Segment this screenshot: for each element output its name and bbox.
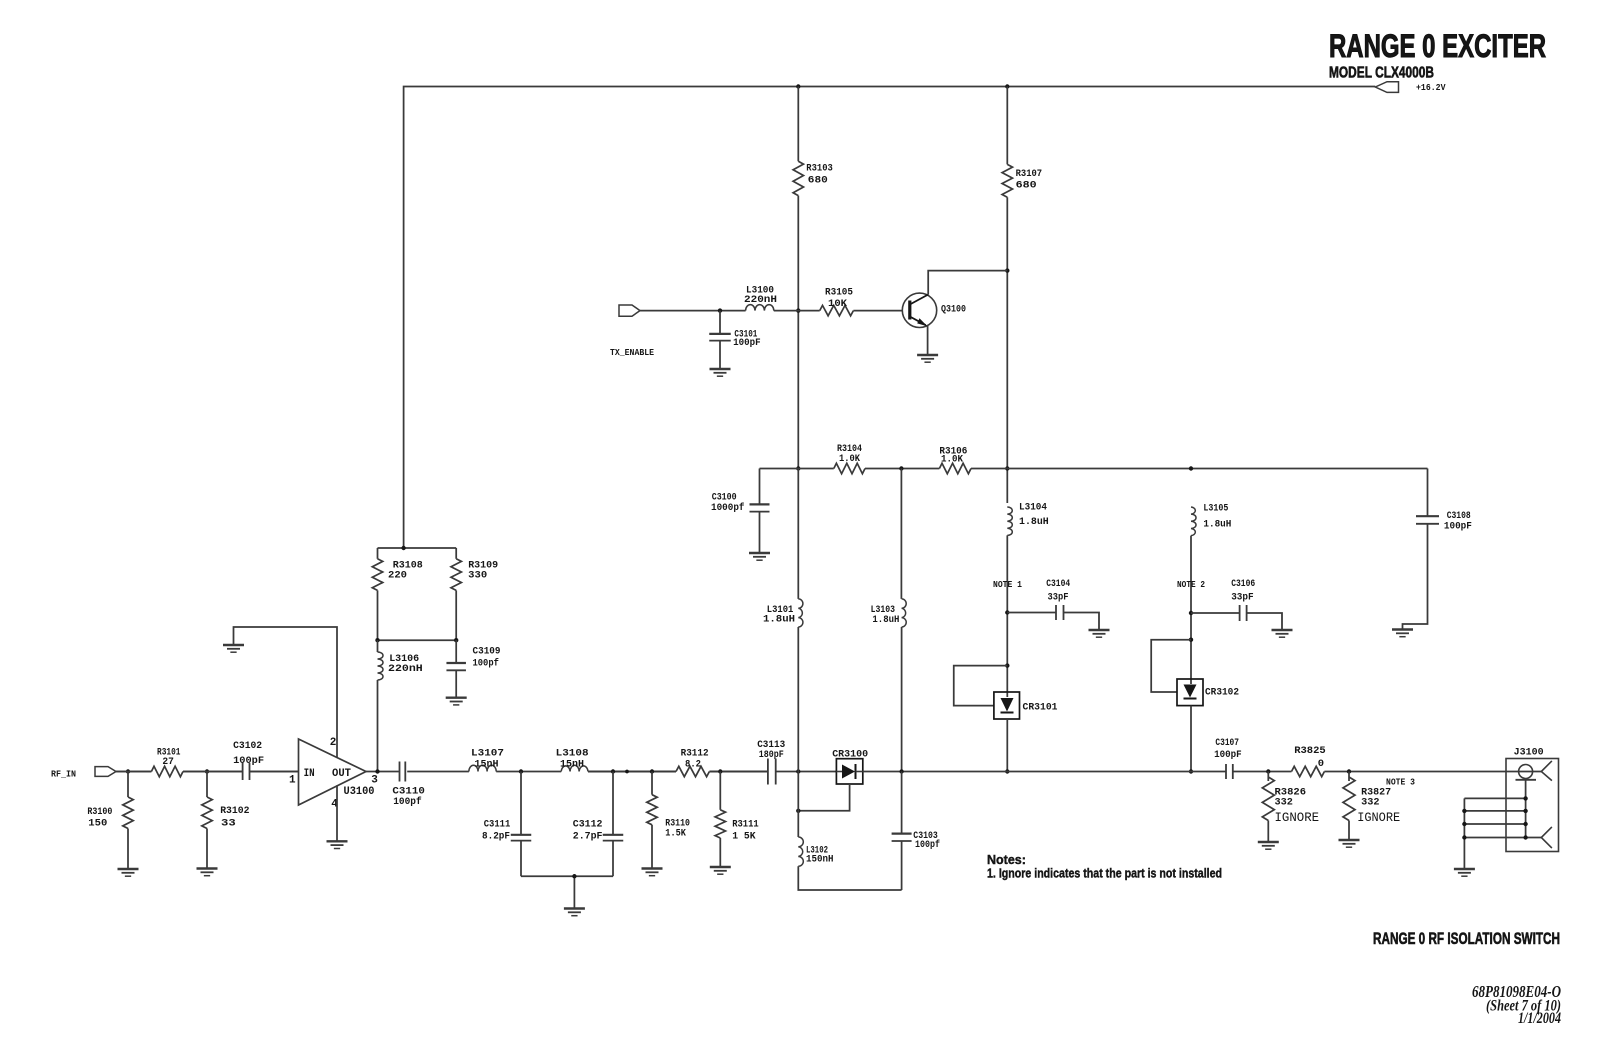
svg-text:100pf: 100pf xyxy=(393,796,422,808)
inductor L3100 xyxy=(746,305,774,311)
wire C3107 to R3825 xyxy=(1233,771,1292,773)
inductor L3103 xyxy=(902,599,907,627)
capacitor C3110 xyxy=(399,762,401,782)
svg-text:R3105: R3105 xyxy=(825,287,853,299)
svg-text:C3109: C3109 xyxy=(473,646,501,658)
resistor R3102 xyxy=(206,772,208,798)
ground J3100 xyxy=(1454,868,1475,870)
svg-text:C3106: C3106 xyxy=(1231,579,1255,590)
node J3100 shield junctions xyxy=(1523,796,1527,800)
diode CR3100 xyxy=(836,759,862,784)
ground C3108 xyxy=(1392,628,1413,630)
wire CR3102 to main row xyxy=(1190,706,1192,772)
node junction R3100 xyxy=(126,769,130,773)
connector J3100 top bracket xyxy=(1541,761,1552,781)
wire op-amp out xyxy=(366,771,399,773)
ground C3106 xyxy=(1272,629,1293,631)
ground C3101 xyxy=(710,368,731,370)
svg-text:1.8uH: 1.8uH xyxy=(763,615,795,626)
svg-text:3: 3 xyxy=(371,774,378,786)
svg-text:100pF: 100pF xyxy=(233,756,264,767)
wire C3111 C3112 bottom xyxy=(521,875,613,877)
node junction R3102 xyxy=(205,769,209,773)
wire x798 main to L3102 xyxy=(797,772,799,838)
svg-text:NOTE 3: NOTE 3 xyxy=(1386,778,1415,788)
svg-text:8.2pF: 8.2pF xyxy=(482,832,510,843)
node junction C3104 xyxy=(1005,610,1009,614)
wire R3108 bottom tee xyxy=(378,639,457,641)
ground C3104 xyxy=(1089,629,1110,631)
svg-text:IGNORE: IGNORE xyxy=(1275,811,1320,825)
svg-text:RANGE 0 RF ISOLATION SWITCH: RANGE 0 RF ISOLATION SWITCH xyxy=(1373,930,1560,948)
svg-text:J3100: J3100 xyxy=(1514,747,1544,759)
wire C3113 to CR3100 xyxy=(776,771,837,773)
node junction R3110 xyxy=(650,769,654,773)
ground op-amp pin2 xyxy=(223,644,244,646)
svg-text:220nH: 220nH xyxy=(388,663,423,675)
capacitor C3108 xyxy=(1427,469,1429,517)
op-amp U3100 xyxy=(299,739,367,805)
svg-text:180pF: 180pF xyxy=(759,750,784,761)
resistor R3112 xyxy=(676,766,709,776)
svg-text:33: 33 xyxy=(221,817,236,829)
capacitor C3101 xyxy=(719,311,721,334)
wire J3100 gnd wire 2 xyxy=(1464,810,1525,812)
node junction row2 x1007 xyxy=(1005,466,1009,470)
wire L3108 to R3112 xyxy=(588,771,676,773)
svg-text:1.0K: 1.0K xyxy=(839,453,861,465)
svg-text:100pf: 100pf xyxy=(473,658,499,670)
svg-text:R3100: R3100 xyxy=(87,806,112,818)
svg-text:MODEL CLX4000B: MODEL CLX4000B xyxy=(1329,65,1434,82)
resistor R3106 xyxy=(939,463,971,473)
node junction collector x1007 xyxy=(1005,268,1009,272)
wire CR3100 cathode loop xyxy=(798,784,849,811)
svg-text:C3112: C3112 xyxy=(573,820,603,831)
svg-text:C3107: C3107 xyxy=(1215,738,1239,749)
capacitor C3100 xyxy=(759,469,761,505)
svg-text:0: 0 xyxy=(1318,758,1324,770)
wire R3104 to R3106 xyxy=(865,468,939,470)
wire L3106 upper lead xyxy=(377,640,379,652)
wire L3100 to R3105 xyxy=(774,310,820,312)
wire RF_IN to R3101 xyxy=(116,771,151,773)
connector J3100 center pin xyxy=(1519,765,1533,779)
svg-text:10K: 10K xyxy=(828,298,848,310)
connector J3100 box xyxy=(1506,759,1559,852)
wire R3103 upper lead xyxy=(797,87,799,162)
svg-text:IGNORE: IGNORE xyxy=(1357,811,1400,825)
ground R3110 xyxy=(642,867,663,869)
node junction main x1007 xyxy=(1005,769,1009,773)
svg-text:8.2: 8.2 xyxy=(685,759,701,771)
ground R3102 xyxy=(197,867,218,869)
wire CR3100 to main right xyxy=(863,771,1226,773)
node junction op-amp out xyxy=(375,769,379,773)
resistor R3109 xyxy=(455,548,457,559)
wire Q3100 collector xyxy=(928,271,1007,295)
wire R3112 to C3113 xyxy=(709,771,768,773)
resistor R3101 xyxy=(151,766,183,776)
wire CR3102 anode loop xyxy=(1151,640,1191,692)
svg-text:NOTE 2: NOTE 2 xyxy=(1177,580,1205,590)
svg-text:332: 332 xyxy=(1361,797,1379,809)
svg-text:220nH: 220nH xyxy=(744,294,777,306)
svg-text:150nH: 150nH xyxy=(806,855,834,866)
connector J3100 bottom bracket xyxy=(1541,827,1552,848)
svg-text:1000pf: 1000pf xyxy=(711,502,745,514)
svg-text:150: 150 xyxy=(88,818,107,830)
svg-text:100pF: 100pF xyxy=(733,337,761,349)
node junction C3111 xyxy=(519,769,523,773)
wire L3102 bottom loop xyxy=(798,866,901,890)
svg-text:C3108: C3108 xyxy=(1447,511,1471,522)
svg-text:R3103: R3103 xyxy=(806,163,833,175)
node junction C3109 top xyxy=(454,638,458,642)
svg-text:OUT: OUT xyxy=(332,768,351,780)
svg-text:CR3100: CR3100 xyxy=(832,749,868,761)
node junction C3112 xyxy=(611,769,615,773)
node J3100 left junctions xyxy=(1462,809,1466,813)
inductor L3106 xyxy=(378,652,384,680)
node stray junction xyxy=(625,770,629,774)
svg-text:Notes:: Notes: xyxy=(987,853,1026,867)
svg-text:U3100: U3100 xyxy=(344,786,375,798)
wire L3104 to CR3101 xyxy=(1006,535,1008,697)
svg-text:C3100: C3100 xyxy=(712,493,737,504)
svg-text:100pF: 100pF xyxy=(1214,750,1242,761)
svg-text:C3102: C3102 xyxy=(233,741,262,752)
node junction row2 x902 xyxy=(899,466,903,470)
svg-text:CR3102: CR3102 xyxy=(1205,687,1239,699)
node junction bottom ground xyxy=(572,874,576,878)
wire J3100 gnd wire 3 xyxy=(1464,823,1525,825)
svg-text:15nH: 15nH xyxy=(475,759,499,771)
svg-text:1.5K: 1.5K xyxy=(665,827,686,839)
svg-text:R3825: R3825 xyxy=(1294,745,1326,757)
wire x798 L3101 to main xyxy=(797,627,799,772)
svg-text:1.0K: 1.0K xyxy=(941,454,964,466)
resistor R3825 xyxy=(1292,766,1325,776)
node junction R3826 xyxy=(1266,769,1270,773)
capacitor C3111 xyxy=(520,772,522,835)
ground C3111 C3112 xyxy=(564,907,585,909)
diode CR3101 xyxy=(994,692,1020,719)
wire J3100 gnd wire 4 xyxy=(1464,837,1541,839)
wire L3106 to main row xyxy=(377,680,379,772)
ground R3827 xyxy=(1339,839,1360,841)
node junction R3111 xyxy=(718,769,722,773)
ground R3100 xyxy=(118,868,139,870)
ground Q3100 emitter xyxy=(917,354,938,356)
resistor R3111 xyxy=(719,772,721,810)
capacitor C3113 xyxy=(767,759,769,785)
node junction row2 x1191 xyxy=(1189,466,1193,470)
svg-text:RANGE 0 EXCITER: RANGE 0 EXCITER xyxy=(1329,28,1546,64)
svg-text:2: 2 xyxy=(330,737,337,749)
svg-text:L3104: L3104 xyxy=(1019,502,1047,514)
svg-text:33pF: 33pF xyxy=(1048,592,1069,604)
wire x902 L3103 to main xyxy=(901,627,903,772)
wire op-amp pin2 to ground xyxy=(234,627,338,758)
wire op-amp pin4 to ground xyxy=(336,785,338,841)
capacitor C3106 xyxy=(1191,612,1240,614)
wire R3101 to C3102 xyxy=(183,771,242,773)
resistor R3108 xyxy=(377,548,379,559)
svg-text:27: 27 xyxy=(162,756,174,768)
svg-text:332: 332 xyxy=(1275,797,1293,809)
wire CR3101 anode loop xyxy=(954,666,1008,706)
node junction main x1191 xyxy=(1189,769,1193,773)
svg-text:NOTE 1: NOTE 1 xyxy=(993,580,1022,590)
wire R3825 to J3100 xyxy=(1324,771,1541,773)
svg-text:1. Ignore indicates that the p: 1. Ignore indicates that the part is not… xyxy=(987,867,1222,881)
node junction R3827 xyxy=(1347,769,1351,773)
resistor R3107 xyxy=(1002,164,1012,197)
ground C3100 xyxy=(749,552,770,554)
inductor L3104 xyxy=(1007,507,1012,535)
svg-text:IN: IN xyxy=(304,768,315,780)
resistor R3827 xyxy=(1348,772,1350,782)
node junction CR3102 loop xyxy=(1189,638,1193,642)
resistor R3100 xyxy=(127,772,129,798)
node junction CR3101 loop xyxy=(1005,663,1009,667)
svg-text:L3105: L3105 xyxy=(1203,503,1228,515)
ground C3109 xyxy=(446,697,467,699)
svg-text:Q3100: Q3100 xyxy=(941,304,966,316)
capacitor C3107 xyxy=(1225,764,1227,779)
node junction row2 x798 xyxy=(796,466,800,470)
port TX_ENABLE connector xyxy=(619,305,640,316)
svg-text:1.8uH: 1.8uH xyxy=(1203,519,1231,531)
ground R3111 xyxy=(710,866,731,868)
inductor L3105 xyxy=(1191,507,1196,536)
svg-text:100pF: 100pF xyxy=(1444,522,1472,533)
node junction main x902 xyxy=(899,769,903,773)
node rail junction R3103 xyxy=(796,84,800,88)
wire row2 left segment xyxy=(760,468,834,470)
svg-text:+16.2V: +16.2V xyxy=(1416,83,1446,93)
svg-text:1.8uH: 1.8uH xyxy=(1019,516,1049,528)
ground op-amp pin4 xyxy=(327,840,348,842)
resistor R3110 xyxy=(651,772,653,795)
wire L3107 to L3108 xyxy=(496,771,561,773)
svg-text:2.7pF: 2.7pF xyxy=(573,832,603,843)
diode CR3102 xyxy=(1177,679,1203,706)
wire main row left xyxy=(116,771,151,773)
wire C3110 to L3107 xyxy=(407,771,469,773)
svg-text:TX_ENABLE: TX_ENABLE xyxy=(610,347,654,358)
inductor L3107 xyxy=(469,765,496,771)
svg-text:33pF: 33pF xyxy=(1231,592,1254,604)
wire C3102 to op-amp xyxy=(250,771,299,773)
wire CR3101 to main row xyxy=(1006,719,1008,772)
wire +16.2V rail xyxy=(404,87,1376,549)
wire TX_ENABLE to L3100 xyxy=(640,310,746,312)
svg-text:RF_IN: RF_IN xyxy=(51,769,76,780)
svg-text:1/1/2004: 1/1/2004 xyxy=(1518,1010,1561,1027)
wire R3105 to Q3100 base xyxy=(853,310,902,312)
wire J3100 gnd left xyxy=(1463,798,1465,869)
resistor R3826 xyxy=(1267,772,1269,782)
svg-text:R3102: R3102 xyxy=(220,805,249,817)
svg-text:330: 330 xyxy=(468,570,487,582)
node junction CR3100 loop xyxy=(796,809,800,813)
inductor L3108 xyxy=(561,765,588,771)
wire x798 row2 to L3101 xyxy=(797,469,799,599)
ground R3826 xyxy=(1258,841,1279,843)
svg-text:C3111: C3111 xyxy=(484,820,511,831)
wire x902 upper xyxy=(900,469,902,599)
node junction C3101 xyxy=(718,308,722,312)
power +16.2V terminal xyxy=(1375,82,1398,93)
port RF_IN connector xyxy=(95,767,116,777)
node junction L3106 top xyxy=(375,638,379,642)
resistor R3105 xyxy=(820,305,854,315)
svg-text:1.8uH: 1.8uH xyxy=(872,615,899,626)
wire Q3100 emitter xyxy=(927,326,929,355)
node junction TX row x798 xyxy=(796,308,800,312)
svg-text:15nH: 15nH xyxy=(560,759,584,771)
capacitor C3109 xyxy=(455,640,457,663)
svg-text:220: 220 xyxy=(388,570,407,582)
wire L3105 to CR3102 xyxy=(1190,536,1192,684)
capacitor C3104 xyxy=(1007,612,1056,614)
svg-text:1 5K: 1 5K xyxy=(732,831,756,843)
node rail junction R3107 xyxy=(1005,84,1009,88)
wire R3108 top tee xyxy=(378,547,457,549)
node junction main x798 xyxy=(796,769,800,773)
transistor Q3100 xyxy=(902,293,936,327)
wire x1007 R3107 to row2 xyxy=(1006,197,1008,503)
inductor L3101 xyxy=(798,599,803,627)
resistor R3104 xyxy=(834,463,865,473)
wire row2 right segment xyxy=(971,468,1428,470)
wire R3107 upper lead xyxy=(1006,87,1008,165)
capacitor C3112 xyxy=(612,772,614,835)
svg-text:100pf: 100pf xyxy=(915,839,940,851)
node junction C3106 xyxy=(1189,611,1193,615)
svg-text:680: 680 xyxy=(808,175,828,187)
svg-text:C3104: C3104 xyxy=(1046,579,1070,590)
svg-text:CR3101: CR3101 xyxy=(1023,702,1058,714)
svg-text:R3107: R3107 xyxy=(1016,168,1043,180)
svg-text:680: 680 xyxy=(1016,180,1037,192)
inductor L3102 xyxy=(798,837,803,866)
resistor R3103 xyxy=(793,161,803,195)
wire J3100 shield line xyxy=(1525,779,1527,838)
capacitor C3102 xyxy=(242,763,244,780)
wire x798 R3103 to row2 xyxy=(797,196,799,469)
capacitor C3103 xyxy=(901,772,903,834)
wire J3100 gnd wire 1 xyxy=(1464,797,1525,799)
node junction top tee xyxy=(401,546,405,550)
svg-text:R3111: R3111 xyxy=(732,819,759,831)
svg-text:1: 1 xyxy=(289,774,296,786)
